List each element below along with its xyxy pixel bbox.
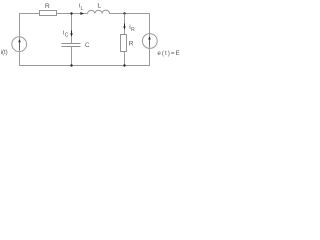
inductor L1 (88, 10, 110, 13)
svg-text:e(t)=E: e(t)=E (157, 50, 180, 57)
capacitor C1 plates (62, 44, 81, 47)
arrow iL (80, 12, 84, 15)
label e(t)=E (157, 50, 180, 57)
svg-text:L: L (81, 6, 84, 12)
voltage source E1 arrow (148, 36, 151, 47)
wire outer loop (top, left, bottom, right) (20, 14, 150, 66)
current source I1 circle (12, 37, 27, 52)
label L (97, 3, 101, 10)
resistor R2 (vertical) (121, 35, 127, 52)
voltage source E1 circle (142, 34, 157, 49)
wire capacitor branch lower (71, 47, 73, 66)
arrow iC (70, 31, 73, 37)
label R (top resistor) (45, 3, 50, 10)
label iL (79, 3, 84, 12)
arrow iR (123, 24, 126, 30)
node D (bottom resistor junction) (123, 64, 125, 66)
svg-text:i(t): i(t) (1, 49, 8, 56)
label iR (129, 24, 135, 33)
svg-text:L: L (97, 3, 101, 10)
label iC (63, 29, 69, 38)
svg-text:R: R (45, 3, 50, 10)
label i(t) (1, 49, 8, 56)
wire resistor branch lower (124, 52, 126, 66)
node C (bottom capacitor junction) (70, 64, 72, 66)
label R (vertical resistor) (129, 41, 134, 48)
resistor R1 (top) (40, 11, 57, 16)
svg-text:C: C (85, 42, 90, 49)
node A (top capacitor junction) (70, 12, 72, 14)
svg-text:C: C (65, 32, 69, 38)
current source I1 arrow (18, 39, 21, 50)
wire capacitor branch upper (71, 14, 73, 44)
wire resistor to inductor (57, 13, 88, 15)
wire resistor branch upper (124, 14, 126, 35)
svg-text:R: R (131, 27, 135, 33)
node B (top resistor junction) (123, 12, 125, 14)
svg-text:R: R (129, 41, 134, 48)
label C (85, 42, 90, 49)
